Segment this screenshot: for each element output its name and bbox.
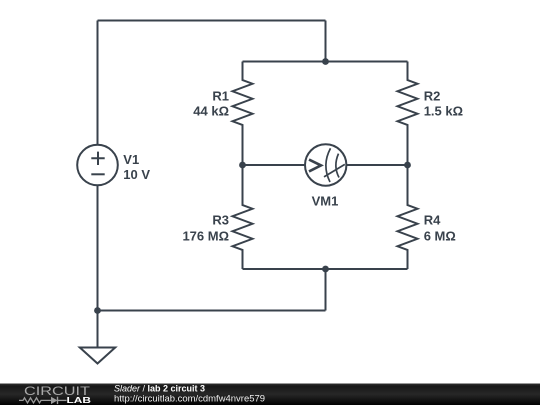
- wire V1 bottom lead: [97, 185, 99, 310]
- VM1 gauge arc left: [326, 148, 331, 182]
- logo resistor squiggle and diode: [19, 398, 67, 403]
- junction node left mid: [239, 162, 246, 169]
- svg-text:R2: R2: [424, 88, 441, 103]
- svg-text:http://circuitlab.com/cdmfw4nv: http://circuitlab.com/cdmfw4nvre579: [114, 393, 265, 403]
- svg-text:VM1: VM1: [312, 193, 339, 208]
- VM1 arrow glyph: [309, 160, 321, 172]
- wire bottom stem down: [325, 269, 327, 311]
- V1 minus sign: [91, 173, 104, 175]
- wire bottom rail of bridge: [243, 268, 408, 270]
- wire ground stem: [97, 311, 99, 348]
- wire top from V1 to middle stem: [98, 20, 326, 22]
- svg-text:LAB: LAB: [67, 395, 92, 405]
- resistor R4: [398, 165, 418, 269]
- voltage source V1: [77, 145, 118, 186]
- VM1 needle: [324, 164, 345, 177]
- svg-text:R4: R4: [424, 212, 441, 227]
- svg-text:44 kΩ: 44 kΩ: [193, 104, 229, 119]
- junction node top: [322, 58, 329, 65]
- svg-text:176 MΩ: 176 MΩ: [182, 229, 229, 244]
- svg-text:R1: R1: [212, 88, 229, 103]
- VM1 gauge arc right: [336, 154, 339, 178]
- junction node ground: [94, 307, 101, 314]
- wire VM1 right: [346, 164, 407, 166]
- svg-text:1.5 kΩ: 1.5 kΩ: [424, 104, 463, 119]
- svg-text:R3: R3: [212, 212, 229, 227]
- logo diode triangle: [51, 397, 58, 404]
- footer bar: [0, 384, 540, 406]
- V1 plus sign: [91, 152, 104, 165]
- svg-text:10 V: 10 V: [123, 167, 150, 182]
- resistor R1: [233, 62, 253, 166]
- svg-text:Slader / lab 2 circuit 3: Slader / lab 2 circuit 3: [114, 384, 205, 394]
- wire bottom to ground junction: [98, 310, 326, 312]
- junction node bottom: [322, 266, 329, 273]
- voltmeter VM1: [305, 144, 346, 185]
- wire top rail of bridge: [243, 61, 408, 63]
- wire middle stem down to top rail: [325, 21, 327, 62]
- ground symbol: [80, 348, 115, 364]
- wire VM1 left: [243, 164, 306, 166]
- resistor R2: [398, 62, 418, 166]
- resistor R3: [233, 165, 253, 269]
- svg-text:V1: V1: [123, 152, 139, 167]
- wire V1 top lead: [97, 21, 99, 145]
- logo diode bar: [57, 397, 59, 404]
- junction node right mid: [404, 162, 411, 169]
- svg-text:6 MΩ: 6 MΩ: [424, 229, 456, 244]
